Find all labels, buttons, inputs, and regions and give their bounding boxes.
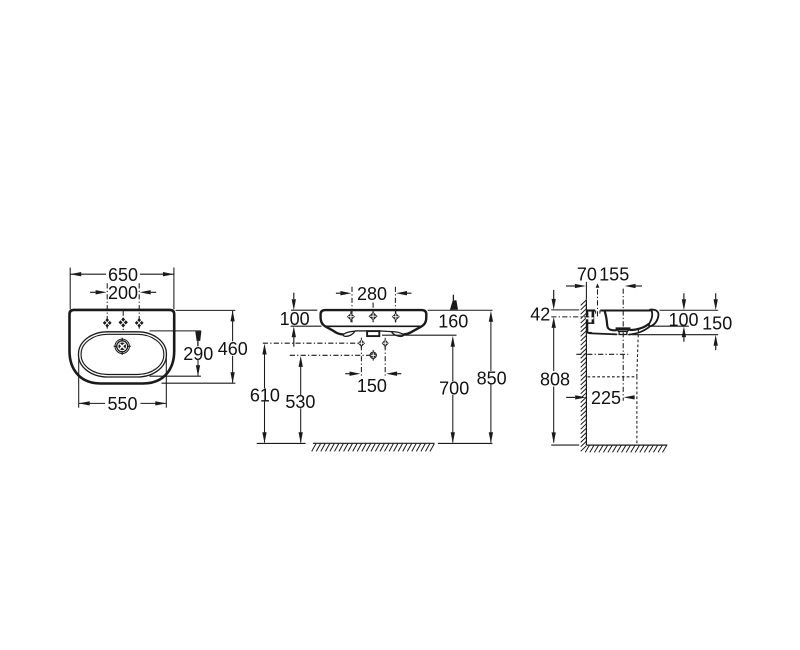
right top reference line <box>660 309 719 311</box>
front view: tap hole cross right <box>392 313 400 321</box>
left view: tap hole centerline left <box>106 283 108 328</box>
fixing hole axis left vertical <box>360 345 362 375</box>
dimension 160: thick bent arrow <box>452 295 454 301</box>
dimension 155: left arrow <box>625 284 636 288</box>
svg-text:42: 42 <box>530 305 550 325</box>
svg-text:100: 100 <box>668 310 698 330</box>
wall hatching <box>581 300 587 451</box>
dimension 530: line and arrows <box>299 356 303 367</box>
ground line left segment <box>257 442 306 444</box>
dimension 150 front: arrows <box>350 372 361 376</box>
side view: right rim J profile <box>649 310 659 327</box>
dimension 150 right: arrows <box>714 299 718 310</box>
svg-text:155: 155 <box>599 264 629 284</box>
front view: drain boss <box>367 331 379 336</box>
front view: tap hole centerline left <box>351 287 353 323</box>
front view: overflow notch left <box>343 331 355 336</box>
dimension 280: arrows and line <box>340 291 351 295</box>
front view: underside line left of boss <box>355 330 367 332</box>
svg-text:650: 650 <box>108 265 138 285</box>
dimension 460: dimension line with arrows <box>232 311 234 341</box>
pedestal hidden outline vertical <box>636 377 638 445</box>
dimension 70: arrow at wall <box>575 284 586 288</box>
side view: tap hole axis top dot arrow <box>596 283 600 287</box>
dimension 42: reference line <box>551 309 579 311</box>
siphon centerline <box>290 354 370 356</box>
left view: washbasin top-view outline <box>70 310 175 384</box>
fixing hole axis right vertical <box>384 345 386 375</box>
dimension 290: thick bent arrow <box>195 331 201 341</box>
side view: wall bracket <box>587 311 589 333</box>
wall face line <box>585 299 587 445</box>
left view: tap hole centerline middle <box>122 311 124 331</box>
reference line 100 below top <box>291 325 322 327</box>
dimension 610: line and arrows <box>262 344 266 355</box>
svg-text:200: 200 <box>108 283 138 303</box>
front view: tap hole centerline middle <box>372 303 374 323</box>
right ground line <box>586 444 667 446</box>
dimension 460: reference lines <box>176 309 236 311</box>
ground line hatched segment <box>313 442 435 444</box>
side view: basin deck top line <box>587 309 596 311</box>
dimension 850: line and arrows <box>489 311 493 322</box>
dimension 290: lower arrow <box>197 360 199 376</box>
dimension 42: centerline dash-dot <box>551 316 593 318</box>
svg-text:290: 290 <box>183 344 213 364</box>
svg-text:70: 70 <box>577 264 597 284</box>
svg-text:460: 460 <box>218 339 248 359</box>
front view: overflow notch right <box>391 332 403 337</box>
reference line top right of front view <box>428 309 493 311</box>
svg-text:808: 808 <box>540 370 570 390</box>
svg-text:150: 150 <box>702 314 732 334</box>
front view: tap hole cross left <box>347 313 355 321</box>
svg-text:160: 160 <box>438 312 468 332</box>
dimension 290: reference lines <box>150 330 201 332</box>
svg-text:530: 530 <box>285 392 315 412</box>
pedestal hidden outline taper <box>637 330 639 377</box>
fixing holes centerline <box>263 342 359 344</box>
side view: basin underside line <box>589 333 617 334</box>
reference line basin bottom right <box>382 334 457 336</box>
svg-text:225: 225 <box>591 388 621 408</box>
fixing hole right <box>382 339 389 347</box>
svg-text:610: 610 <box>250 386 280 406</box>
svg-text:100: 100 <box>280 309 310 329</box>
dimension 808: line and arrows <box>553 328 555 371</box>
left view: bowl rim inner ring <box>81 334 164 374</box>
svg-text:550: 550 <box>107 394 137 414</box>
svg-text:850: 850 <box>477 368 507 388</box>
left view: tap hole middle <box>119 317 128 327</box>
right 100 reference line <box>650 325 689 327</box>
dimension 200: arrows <box>96 290 107 294</box>
ground line right segment <box>438 442 493 444</box>
svg-text:700: 700 <box>439 379 469 399</box>
right 150 reference line <box>632 334 718 336</box>
left view: tap hole left <box>103 318 112 328</box>
dimension 808: ground reference line <box>551 444 579 446</box>
front view: washbasin outline <box>321 310 427 334</box>
side view: bowl inner profile right <box>630 324 649 330</box>
left view: tap hole centerline right <box>138 283 140 328</box>
left view: bowl rim outer ring <box>79 332 167 377</box>
dimension 225: arrows <box>575 395 586 399</box>
siphon cross with circle <box>370 352 376 358</box>
wall face extension line <box>585 282 587 299</box>
pedestal hidden outline horizontal <box>588 376 637 378</box>
reference line top left of front view <box>291 309 317 311</box>
side view: underside right curve <box>629 326 650 334</box>
front view: tap hole cross middle <box>369 312 378 321</box>
front view: rim bottom line <box>325 325 421 327</box>
dimension 100 right: arrows <box>682 299 686 310</box>
siphon height centerline <box>576 353 628 355</box>
dimension 650: dimension line with arrows <box>70 273 106 275</box>
side view: drain trap taper <box>617 330 629 332</box>
side view: tap hole axis <box>597 289 599 317</box>
left view: drain symbol <box>115 339 129 353</box>
side view: bowl inner profile left <box>605 312 616 331</box>
side view: drain axis <box>622 289 624 401</box>
side view: drain trap flange <box>616 327 631 329</box>
side view: tap hole walls on deck <box>595 311 597 314</box>
left view: tap hole right <box>135 318 144 328</box>
dimension 650: extension lines <box>69 268 71 310</box>
side view: drain trap tail pipe <box>619 332 627 335</box>
front view: underside line right of boss <box>379 330 391 333</box>
svg-text:280: 280 <box>357 284 387 304</box>
fixing hole left <box>358 339 365 347</box>
svg-text:150: 150 <box>357 376 387 396</box>
dimension 550: dimension line with arrows <box>79 402 105 404</box>
front view: tap hole centerline right <box>394 287 396 323</box>
dimension 42: arrows <box>552 299 556 310</box>
dimension 550: extension lines <box>78 358 80 408</box>
dimension 700: line and arrows <box>451 336 455 347</box>
dimension 100 front: arrows <box>292 299 296 310</box>
